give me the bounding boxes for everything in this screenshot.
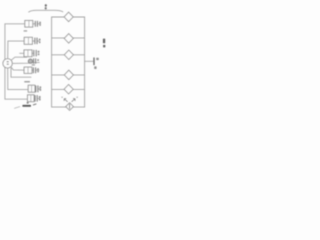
row2: box B2: [24, 37, 32, 44]
wire: branch down to stub row: [11, 68, 31, 77]
caption text bottom-left: [22, 105, 31, 107]
row1: capacitor C1: [35, 21, 37, 26]
row5: wire: [32, 69, 39, 71]
row3: capacitor C3: [34, 50, 36, 56]
row5: capacitor C5: [33, 68, 35, 73]
diamond D5: [64, 85, 73, 94]
far-left bus: [5, 24, 28, 99]
wire: top horizontal line: [29, 10, 63, 12]
row1: wire: [25, 23, 41, 25]
component T1 (tiny element on top line): [45, 4, 47, 7]
diamond D4: [64, 70, 73, 79]
label right of terminal: [96, 58, 99, 60]
row2: wire: [33, 40, 39, 42]
wire: hub right to row4: [12, 62, 39, 63]
emitter diamond D6 with arrows: [66, 103, 74, 111]
wire: hub bottom riser to row6: [8, 68, 28, 89]
row1: label: [39, 22, 41, 24]
diamond D2: [64, 34, 73, 43]
row4: round component P1: [28, 59, 32, 63]
left bus of ladder (node L): [52, 17, 66, 107]
row7: box B7: [28, 95, 35, 102]
label under stub row: [24, 81, 30, 83]
wire: diamond D3 leads: [52, 54, 85, 56]
row6: capacitor C6: [36, 86, 38, 92]
circuit schematic figure: [0, 0, 112, 120]
row7: capacitor C7: [35, 96, 37, 102]
row3: box B3: [24, 50, 32, 57]
row3: label: [38, 51, 40, 53]
label below row4: [32, 64, 35, 65]
row5: label: [37, 68, 39, 70]
terminal bar: [93, 58, 95, 65]
wire: hub upper-right diagonal to row3: [11, 57, 26, 60]
row4: capacitor C4: [34, 59, 36, 64]
row5: box B5: [24, 67, 32, 73]
row1: box B1: [25, 21, 33, 28]
arrow A2 (up-right ray): [72, 99, 75, 102]
terminal wire on right bus: [85, 60, 94, 62]
row2: label: [39, 39, 41, 41]
diamond D1: [64, 12, 73, 21]
source/hub circle M: [3, 59, 12, 68]
row2: capacitor C2: [35, 38, 37, 44]
wire: hub lower-right diagonal to row5: [11, 67, 24, 71]
diamond D3: [64, 50, 73, 59]
row6: label: [39, 86, 41, 88]
right bus of ladder (node R): [73, 17, 84, 107]
label near arrows: [61, 97, 62, 98]
wire: diamond D2 leads: [52, 37, 85, 39]
label under B1: [24, 30, 28, 31]
wire: diamond D4 leads: [52, 74, 85, 76]
row3: wire: [20, 52, 34, 54]
row6: wire: [35, 88, 41, 90]
row4: label: [37, 59, 39, 61]
row7: wire: [34, 98, 40, 101]
row6: box B6: [28, 85, 35, 92]
arrow A1 (up-left ray): [64, 99, 67, 102]
wire: diamond D5 leads: [52, 88, 85, 90]
wire: hub top riser to row2: [8, 41, 25, 59]
Fig label (rotated): [103, 39, 105, 44]
row7: label: [39, 96, 41, 98]
